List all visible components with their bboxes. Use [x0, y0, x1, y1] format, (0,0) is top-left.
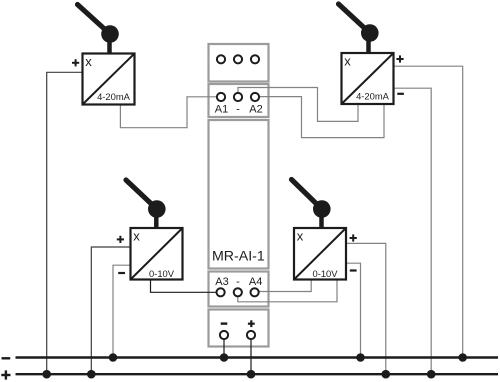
- transmitter BL 0-10V: [126, 180, 183, 280]
- junction BL+ on +rail: [87, 370, 96, 379]
- junction TR+ on -rail: [458, 353, 467, 362]
- svg-text:-: -: [236, 276, 240, 288]
- wire module + terminal to +rail: [250, 339, 252, 374]
- label module +: [248, 323, 255, 325]
- terminal A4: [251, 288, 259, 296]
- label BL -: [118, 272, 125, 274]
- svg-text:4-20mA: 4-20mA: [356, 90, 390, 101]
- svg-text:A2: A2: [249, 104, 262, 116]
- junction module + on +rail: [247, 370, 256, 379]
- label A1 - A2: [215, 104, 263, 116]
- wire A1A2 middle terminal to TR sensor bottom pin 1: [238, 88, 358, 122]
- wire TL sensor + to +rail: [47, 72, 83, 374]
- label TR +: [396, 58, 403, 60]
- terminal A3: [217, 288, 225, 296]
- wire BL sensor + to +rail: [91, 247, 130, 374]
- svg-text:x: x: [85, 54, 92, 69]
- label TR -: [397, 93, 404, 95]
- terminal A3A4 common: [234, 288, 242, 296]
- svg-text:4-20mA: 4-20mA: [97, 91, 131, 102]
- label TL +: [72, 62, 79, 64]
- wire BL sensor output to A3: [151, 280, 217, 293]
- svg-text:A3: A3: [215, 276, 228, 288]
- label BL +: [117, 238, 124, 240]
- wire TR sensor + to rail: [394, 66, 463, 357]
- wire BR sensor - to -rail: [346, 263, 361, 357]
- junction BR- on -rail: [356, 353, 365, 362]
- svg-text:MR-AI-1: MR-AI-1: [212, 249, 265, 265]
- transmitter TL 4-20mA: [78, 5, 135, 105]
- junction TL+ on +rail: [42, 370, 51, 379]
- svg-text:-: -: [236, 104, 240, 116]
- svg-text:x: x: [297, 229, 304, 244]
- junction BR+ on +rail: [382, 370, 391, 379]
- wire A3A4 middle terminal to BR sensor bottom pin 2: [238, 280, 337, 302]
- transmitter BR 0-10V: [292, 180, 347, 280]
- junction TR- on +rail: [427, 370, 436, 379]
- wire TR sensor - to rail: [394, 88, 432, 374]
- module section supply: [209, 310, 269, 347]
- terminal module -: [220, 331, 228, 339]
- junction dots: [42, 353, 467, 378]
- terminal module +: [247, 331, 255, 339]
- label -rail: [2, 357, 11, 359]
- label BR +: [350, 237, 357, 239]
- wire module - terminal to -rail: [223, 339, 225, 358]
- junction BL- on -rail: [109, 353, 118, 362]
- module U1 body section top terminals: [209, 44, 269, 347]
- wire TL sensor output to A1: [120, 97, 216, 128]
- wire BR sensor + to +rail: [346, 243, 386, 374]
- svg-text:A4: A4: [249, 276, 262, 288]
- label +rail: [1, 374, 10, 376]
- module body MR-AI-1: [209, 120, 269, 269]
- junction module - on -rail: [220, 353, 229, 362]
- svg-text:A1: A1: [215, 104, 228, 116]
- wire A2 to TR sensor bottom pin 2: [259, 97, 384, 138]
- terminal A1: [217, 93, 225, 101]
- svg-text:x: x: [344, 54, 351, 69]
- terminal A2: [251, 93, 259, 101]
- label A3 - A4: [215, 276, 262, 288]
- svg-text:0-10V: 0-10V: [149, 268, 175, 279]
- label BR -: [350, 269, 357, 271]
- label module -: [221, 322, 228, 324]
- svg-text:x: x: [133, 229, 140, 244]
- module section A3/A4: [209, 272, 269, 307]
- -rail bus: [16, 356, 499, 358]
- module section A1/A2: [209, 84, 269, 117]
- svg-text:0-10V: 0-10V: [312, 268, 338, 279]
- terminal A1A2 common: [234, 93, 242, 101]
- transmitter TR 4-20mA: [339, 4, 394, 104]
- +rail bus: [16, 373, 499, 375]
- wire A4 to BR sensor bottom pin 1: [259, 280, 312, 292]
- module terminal circles row 1: [217, 55, 260, 339]
- wire BL sensor - to -rail: [113, 265, 131, 357]
